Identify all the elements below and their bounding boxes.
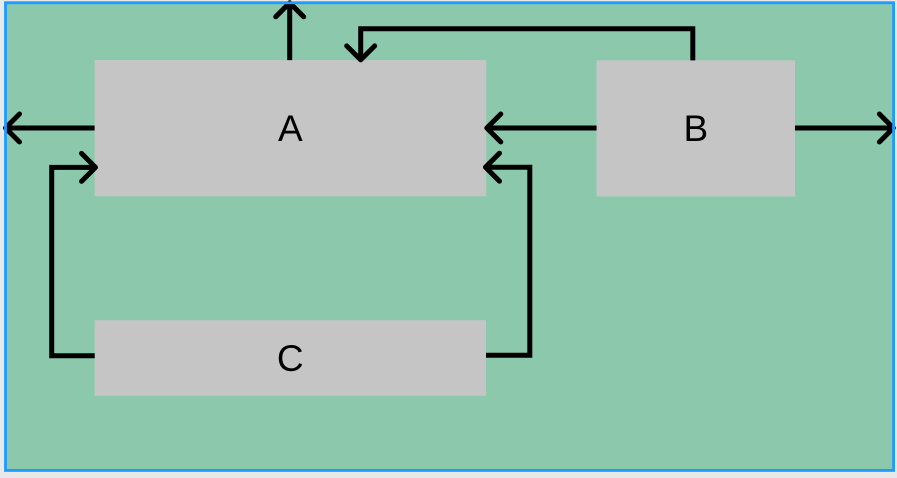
block C	[95, 320, 486, 396]
arrow A to left edge	[6, 114, 95, 142]
svg-text:C: C	[277, 338, 304, 379]
arrow A to top edge	[276, 3, 304, 60]
block A	[95, 60, 487, 196]
connector B top to A top	[347, 29, 693, 61]
connector C left to A left	[52, 153, 96, 355]
connector C right to A right	[486, 153, 530, 355]
block B	[597, 60, 795, 196]
arrow B to right edge	[795, 114, 893, 142]
arrow B to A	[487, 114, 597, 142]
svg-text:A: A	[278, 108, 303, 149]
svg-text:B: B	[683, 108, 708, 149]
